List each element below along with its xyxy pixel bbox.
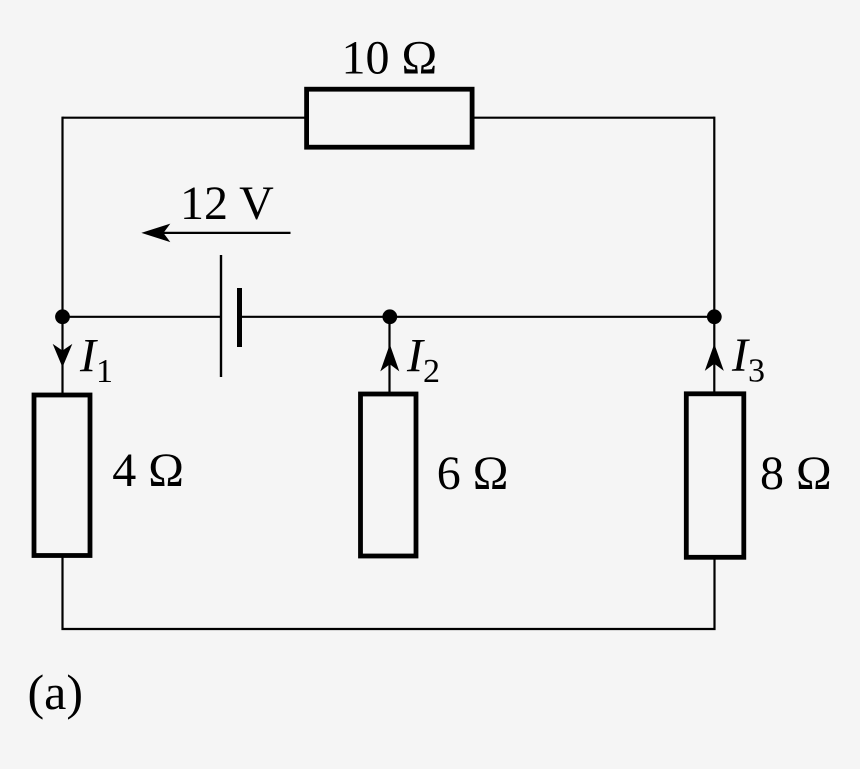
node 2 (middle junction) <box>382 309 397 324</box>
wire 6-ohm branch (node 2 down) <box>388 317 390 394</box>
wire left vertical (node 1 branch) <box>61 117 63 394</box>
svg-text:8 Ω: 8 Ω <box>760 447 832 500</box>
wire middle: node 1 to battery <box>63 316 222 318</box>
node 1 (left junction) <box>55 309 70 324</box>
wire middle: battery to node 3 <box>240 316 715 318</box>
resistor 8 ohm <box>686 394 744 558</box>
12 V polarity arrow <box>146 232 291 234</box>
wire right vertical (node 3 branch) <box>713 117 715 393</box>
wire top-right horizontal <box>471 117 714 119</box>
svg-text:4 Ω: 4 Ω <box>112 444 184 497</box>
wire bottom return (left, middle, right drops + bottom rail) <box>63 556 715 629</box>
resistor 10 ohm (top) <box>307 89 473 147</box>
wire top-left horizontal <box>63 117 309 119</box>
resistor 4 ohm <box>34 395 90 556</box>
svg-text:12 V: 12 V <box>180 177 274 230</box>
battery V1 short thick plate (-) <box>237 288 242 347</box>
current arrow I1 (down) <box>54 345 71 366</box>
current arrow I2 (up) <box>381 346 398 370</box>
node 3 (right junction) <box>707 309 722 324</box>
svg-text:10 Ω: 10 Ω <box>342 32 438 85</box>
current arrow I3 (up) <box>706 345 723 369</box>
resistor 6 ohm <box>361 394 417 556</box>
svg-text:6 Ω: 6 Ω <box>437 447 509 500</box>
battery V1 long plate (+) <box>220 255 222 377</box>
svg-text:(a): (a) <box>28 664 84 720</box>
